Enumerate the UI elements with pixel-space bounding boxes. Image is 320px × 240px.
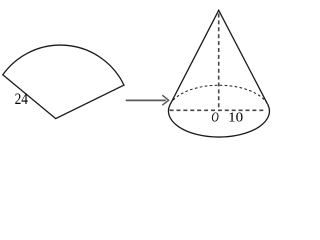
base ellipse solid bottom arc — [168, 104, 269, 137]
dashed axis + diameter — [170, 14, 266, 111]
svg-text:10: 10 — [228, 109, 243, 124]
svg-text:24: 24 — [15, 91, 28, 108]
slant sides — [170, 10, 267, 104]
sector (unrolled lateral surface) — [3, 45, 124, 119]
svg-text:O: O — [211, 109, 219, 124]
cone — [168, 10, 269, 137]
arrow — [126, 95, 169, 105]
base ellipse dashed top arc — [170, 85, 267, 104]
